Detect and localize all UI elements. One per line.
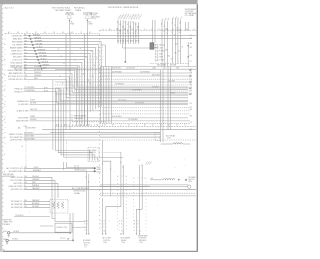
resistor R1 [52, 202, 54, 209]
vertical drop x102.7 [102, 140, 104, 196]
svg-text:B4: B4 [64, 125, 66, 127]
lower elbow fan [56, 89, 90, 161]
svg-text:30: 30 [24, 61, 26, 63]
svg-text:V1: V1 [158, 29, 160, 31]
rows y134 right [100, 133, 160, 135]
svg-text:X2: X2 [172, 29, 174, 31]
splice dot S201 [94, 167, 96, 169]
svg-text:(1/4): (1/4) [84, 245, 88, 247]
svg-text:BLK/WHT: BLK/WHT [32, 203, 40, 205]
svg-text:DK BLU: DK BLU [34, 69, 41, 71]
svg-text:RELAY: RELAY [121, 239, 127, 242]
fuse wire F2 verticals [84, 34, 86, 127]
right dashed row y63.5 [150, 63, 190, 65]
splice feeder elbow [67, 162, 95, 168]
wire right far pair [185, 22, 187, 31]
svg-text:GRY/RED: GRY/RED [38, 52, 46, 54]
bottom vertical x102.7 lower [102, 198, 104, 234]
wire center continue a [122, 39, 124, 48]
svg-text:CIG LTR FEED: CIG LTR FEED [10, 180, 24, 182]
svg-text:SEAT BELT: SEAT BELT [13, 37, 24, 40]
svg-text:C: C [137, 227, 138, 229]
svg-text:41: 41 [166, 33, 168, 35]
svg-text:F3: F3 [96, 125, 98, 127]
wire right single pair [152, 20, 154, 43]
svg-text:33: 33 [125, 33, 127, 35]
svg-text:CLASS 2 SER: CLASS 2 SER [16, 110, 29, 113]
svg-text:J2: J2 [120, 125, 122, 127]
svg-text:D2: D2 [80, 125, 82, 127]
left rows block B wires [24, 67, 78, 69]
svg-text:AUX PWR: AUX PWR [14, 182, 23, 185]
svg-text:15: 15 [102, 164, 104, 166]
svg-text:121: 121 [24, 69, 27, 71]
svg-text:41: 41 [182, 47, 184, 49]
svg-text:15: 15 [88, 182, 90, 184]
svg-text:CHARGE IND: CHARGE IND [11, 52, 24, 55]
svg-text:33: 33 [117, 22, 119, 24]
bottom connector box [55, 223, 72, 232]
svg-text:12: 12 [172, 32, 174, 34]
svg-text:N7: N7 [116, 29, 118, 31]
svg-text:(1/2): (1/2) [140, 242, 144, 244]
svg-text:15: 15 [122, 167, 124, 169]
pin ticks above cluster pin row [55, 124, 57, 126]
svg-text:42: 42 [161, 24, 163, 26]
wire row y69 [55, 68, 196, 70]
svg-text:67: 67 [24, 203, 26, 205]
svg-text:12: 12 [132, 33, 134, 35]
svg-text:39 GRY/RED: 39 GRY/RED [132, 89, 142, 91]
svg-text:C2: C2 [122, 231, 124, 233]
junction dot x70 ground row [69, 232, 71, 234]
resistor R3 [61, 202, 63, 209]
svg-text:T3: T3 [144, 29, 146, 31]
svg-text:716: 716 [24, 58, 27, 60]
svg-text:SIGNAL: SIGNAL [74, 192, 80, 195]
svg-text:420: 420 [24, 37, 27, 39]
bottom wire end arrows [86, 234, 88, 236]
svg-text:A/C CONTROL HD: A/C CONTROL HD [6, 167, 23, 170]
junction dot x73 ground row [72, 240, 74, 242]
dotted vertical x66.5 [66, 140, 68, 160]
svg-text:39: 39 [24, 34, 26, 36]
svg-text:S6: S6 [176, 125, 178, 127]
stub wires dark box to ladder [154, 44, 158, 46]
svg-text:F3: F3 [53, 32, 55, 34]
svg-text:8 GRY: 8 GRY [159, 57, 163, 59]
svg-text:DIMMER SIG: DIMMER SIG [17, 101, 29, 103]
svg-text:15: 15 [110, 169, 112, 171]
svg-text:M3: M3 [144, 125, 146, 127]
arrowheads right row ends [190, 69, 192, 71]
svg-text:824: 824 [24, 46, 27, 48]
svg-text:FUSE 10A: FUSE 10A [65, 13, 74, 16]
svg-text:C7: C7 [72, 125, 74, 127]
svg-text:MOTOR: MOTOR [84, 242, 91, 244]
svg-text:C: C [134, 227, 135, 229]
wire row y66.5 [101, 66, 197, 68]
thermal fuse symbol [185, 179, 187, 181]
svg-text:PRNDL A: PRNDL A [14, 87, 23, 90]
svg-text:716 PNK/BLK: 716 PNK/BLK [128, 119, 139, 121]
svg-text:LT BLU: LT BLU [37, 46, 43, 48]
bottom long verticals group 1 [86, 171, 88, 233]
svg-text:67: 67 [24, 49, 26, 51]
blower resistor dashed box [50, 200, 68, 214]
bottom border line [3, 250, 198, 252]
svg-text:B2: B2 [190, 47, 192, 49]
row dotted continuations block B [78, 67, 104, 69]
svg-text:C1: C1 [85, 247, 87, 249]
right verticals x160-170 [160, 70, 162, 142]
svg-text:82: 82 [119, 24, 121, 26]
svg-text:42: 42 [119, 33, 121, 35]
left band vertical [52, 80, 54, 150]
svg-text:E4: E4 [190, 55, 192, 57]
svg-text:DRL MODULE / CHIME MODULE: DRL MODULE / CHIME MODULE [108, 7, 139, 9]
svg-text:ORN/BLK: ORN/BLK [42, 64, 50, 66]
svg-text:M3: M3 [109, 29, 111, 31]
svg-text:BLOWER: BLOWER [189, 177, 197, 179]
svg-text:C7: C7 [26, 32, 28, 34]
rows y101-123 right extension [56, 100, 189, 102]
svg-text:824 YEL/BLK: 824 YEL/BLK [112, 116, 122, 118]
svg-text:B: B [134, 224, 135, 226]
svg-text:237 ORN: 237 ORN [168, 80, 175, 82]
svg-text:WHT: WHT [32, 182, 36, 184]
svg-text:L1: L1 [136, 125, 138, 127]
svg-text:(1/4): (1/4) [104, 242, 108, 244]
svg-text:150B: 150B [159, 54, 163, 56]
center elbow x105 [101, 45, 106, 67]
bottom elbow to box [52, 198, 55, 219]
svg-text:67: 67 [130, 33, 132, 35]
svg-text:82: 82 [127, 33, 129, 35]
svg-text:CHECK GAUGES: CHECK GAUGES [7, 69, 23, 72]
svg-text:FUEL GAUGE: FUEL GAUGE [10, 61, 23, 64]
svg-text:15: 15 [85, 177, 87, 179]
svg-text:R2: R2 [130, 29, 132, 31]
svg-text:E2: E2 [190, 103, 192, 105]
svg-text:C2: C2 [139, 231, 141, 233]
fuse F1 [68, 16, 71, 19]
svg-text:OIL PRESS: OIL PRESS [13, 44, 24, 46]
svg-text:5 BLK: 5 BLK [159, 48, 163, 50]
svg-text:C: C [87, 227, 88, 229]
svg-text:15: 15 [172, 23, 174, 25]
wire center elbow right y48 [123, 47, 156, 49]
svg-text:39: 39 [78, 92, 80, 94]
wire row y189.3 [24, 188, 197, 190]
svg-text:G6: G6 [62, 32, 64, 34]
center verticals x100-112 [100, 67, 102, 124]
wire from fuse F1 [69, 19, 71, 34]
svg-text:39 PNK: 39 PNK [159, 51, 164, 53]
right dashed box y132 [155, 133, 160, 141]
scan noise specks [66, 42, 69, 45]
wire row y195.9 [100, 195, 196, 197]
svg-text:SEE FUSE: SEE FUSE [4, 220, 12, 222]
svg-text:PRNDL B: PRNDL B [14, 91, 23, 93]
svg-text:824: 824 [168, 56, 171, 58]
svg-text:UPSHIFT IND: UPSHIFT IND [11, 67, 23, 69]
svg-text:33: 33 [24, 43, 26, 45]
svg-text:30: 30 [24, 78, 26, 80]
svg-text:PPL/WHT: PPL/WHT [34, 66, 42, 68]
wires center cluster [117, 20, 119, 44]
svg-text:CLUTCH: CLUTCH [103, 240, 111, 242]
block B verticals to elbows [78, 68, 189, 88]
svg-text:B: B [137, 224, 138, 226]
left scan band [0, 4, 2, 252]
diode symbols right [187, 42, 189, 67]
svg-text:BRN/WHT: BRN/WHT [33, 170, 41, 172]
svg-text:36: 36 [3, 250, 5, 252]
svg-text:30: 30 [179, 32, 181, 34]
lower center dashed box [88, 148, 99, 162]
svg-text:67: 67 [171, 59, 173, 61]
svg-text:41: 41 [174, 34, 176, 36]
svg-text:(1/4): (1/4) [122, 242, 126, 244]
svg-text:15: 15 [139, 160, 141, 162]
page background [0, 0, 200, 259]
svg-text:33: 33 [24, 179, 26, 181]
right module dashed top edge [100, 29, 196, 31]
svg-text:716 PNK/BLK: 716 PNK/BLK [140, 71, 151, 73]
component dashed outline around pair 1 [117, 176, 119, 231]
svg-text:J2: J2 [80, 32, 82, 34]
instrument cluster dashed top edge [5, 33, 100, 35]
svg-text:SECURITY: SECURITY [13, 56, 23, 58]
svg-text:41: 41 [24, 170, 26, 172]
resistor R2 [57, 202, 59, 209]
svg-text:N7: N7 [152, 125, 154, 127]
svg-text:H8: H8 [112, 125, 114, 127]
svg-text:MOTOR: MOTOR [189, 179, 196, 181]
elbow x102.7 to x110.8 [103, 161, 111, 196]
svg-text:F7: F7 [190, 61, 192, 63]
svg-text:DEFOG FEED: DEFOG FEED [10, 140, 23, 142]
right cluster A wires continue [161, 42, 163, 67]
wires right cluster A [161, 20, 163, 42]
svg-text:HVAC BLOWER: HVAC BLOWER [9, 185, 23, 188]
svg-text:C4: C4 [190, 122, 192, 124]
center pair verticals y165 [74, 165, 76, 170]
svg-text:YEL/BLK: YEL/BLK [32, 176, 40, 178]
top scan band [0, 0, 198, 4]
svg-text:96: 96 [22, 146, 24, 148]
left rows block A connector dots [29, 35, 31, 37]
svg-text:B9: B9 [190, 116, 192, 118]
svg-text:B: B [121, 224, 122, 226]
svg-text:F4: F4 [190, 107, 192, 109]
svg-text:67: 67 [24, 185, 26, 187]
left rows block A wires [24, 35, 197, 37]
svg-text:YEL/BLK: YEL/BLK [41, 61, 49, 63]
svg-text:G202: G202 [3, 231, 7, 233]
svg-text:B4: B4 [17, 32, 19, 34]
svg-text:BRAKE WARN: BRAKE WARN [10, 46, 23, 49]
bottom elbow left x136.5 [137, 209, 143, 233]
svg-text:824 DK BLU: 824 DK BLU [112, 68, 122, 70]
svg-text:K5: K5 [89, 32, 91, 34]
fuse wire F1 verticals [69, 34, 71, 131]
bottom elbow drops [51, 177, 53, 198]
svg-text:23: 23 [135, 24, 137, 26]
svg-text:30: 30 [132, 22, 134, 24]
svg-text:41: 41 [135, 33, 137, 35]
svg-text:E9: E9 [88, 125, 90, 127]
svg-text:C7: C7 [193, 29, 195, 31]
svg-text:B: B [101, 224, 102, 226]
svg-text:71: 71 [137, 33, 139, 35]
svg-text:BRN/WHT: BRN/WHT [38, 49, 46, 51]
svg-text:SWITCH: SWITCH [89, 152, 96, 154]
svg-text:C1: C1 [190, 35, 192, 37]
svg-text:PNK/BLK: PNK/BLK [32, 185, 40, 187]
svg-text:ILLUM GND: ILLUM GND [18, 104, 29, 106]
wire rows y73-94 [101, 72, 193, 74]
svg-text:41: 41 [127, 24, 129, 26]
wire row y186.6 [100, 186, 188, 188]
wire row y184.9 [100, 184, 188, 186]
svg-text:15: 15 [120, 162, 122, 164]
svg-text:COIL: COIL [167, 138, 171, 140]
svg-text:39: 39 [117, 33, 119, 35]
right border line [196, 4, 198, 251]
svg-text:SVC ENG SOON: SVC ENG SOON [8, 76, 23, 78]
svg-text:D7: D7 [190, 129, 192, 131]
svg-text:121: 121 [175, 44, 178, 46]
svg-text:BLOWER M2: BLOWER M2 [11, 207, 22, 209]
svg-text:GND RETURN: GND RETURN [16, 121, 29, 123]
svg-text:121 DK BLU: 121 DK BLU [126, 68, 136, 70]
svg-text:41: 41 [24, 55, 26, 57]
connector arrow F2 wire [86, 20, 88, 22]
svg-text:TIMES: TIMES [75, 10, 82, 12]
svg-text:C2 = GRAY: C2 = GRAY [185, 14, 195, 17]
dashed row y193.2 [100, 192, 196, 194]
wires right cluster B [172, 18, 174, 42]
svg-text:B: B [104, 224, 105, 226]
svg-text:OF I/P): OF I/P) [91, 18, 97, 20]
dashed hook y152.3 [104, 151, 121, 153]
coil bottom right [163, 179, 175, 180]
svg-text:716: 716 [24, 75, 27, 77]
wire from G201 [8, 239, 73, 241]
svg-text:PNK/BLK: PNK/BLK [33, 34, 41, 36]
svg-text:BLK/WHT: BLK/WHT [35, 40, 43, 42]
svg-text:T3: T3 [184, 125, 186, 127]
center dashed box edges [72, 121, 106, 123]
svg-text:DK BLU: DK BLU [40, 58, 47, 60]
motor circle M [188, 185, 191, 188]
svg-text:PPL/WHT: PPL/WHT [39, 55, 47, 57]
svg-text:YEL/BLK: YEL/BLK [34, 72, 42, 74]
wire row y129 [42, 128, 196, 130]
wire row y132 [50, 131, 160, 133]
svg-text:L1: L1 [102, 29, 104, 31]
component dashed outline around pair 2 [133, 178, 135, 231]
svg-text:C: C [121, 227, 122, 229]
svg-text:ORN/BLK: ORN/BLK [32, 179, 40, 181]
svg-text:W5: W5 [165, 29, 167, 31]
svg-text:SEE GROUND: SEE GROUND [3, 174, 15, 176]
svg-text:39: 39 [130, 27, 132, 29]
svg-text:30: 30 [178, 51, 180, 53]
wires below resistor bank [69, 213, 71, 233]
svg-text:S6: S6 [137, 29, 139, 31]
svg-text:PARK LP FEED: PARK LP FEED [9, 133, 23, 136]
svg-text:12: 12 [125, 22, 127, 24]
svg-text:C: C [119, 227, 120, 229]
svg-text:S203: S203 [97, 171, 101, 173]
row dotted continuations block A [98, 44, 103, 46]
svg-text:67: 67 [179, 23, 181, 25]
svg-text:824 LT BLU: 824 LT BLU [152, 74, 161, 76]
svg-text:G203: G203 [3, 239, 7, 241]
wire drop from y129 [25, 130, 27, 169]
svg-text:33: 33 [163, 45, 165, 47]
wire from fuse F2 [86, 19, 88, 34]
svg-text:ORN/BLK: ORN/BLK [34, 75, 42, 77]
left y88 elbows [60, 89, 188, 101]
svg-text:21B: 21B [159, 45, 162, 47]
svg-text:IGN 3 FEED: IGN 3 FEED [18, 118, 29, 120]
svg-text:39: 39 [95, 92, 97, 94]
pin ticks top edges [69, 32, 71, 35]
svg-text:41: 41 [24, 72, 26, 74]
svg-text:TURN SIG LT: TURN SIG LT [11, 50, 23, 52]
svg-text:150: 150 [24, 176, 27, 178]
connector arrow F1 wire [69, 20, 71, 22]
svg-text:E9: E9 [44, 32, 46, 34]
svg-text:ABS WARN IND: ABS WARN IND [9, 72, 23, 75]
box stub wire [72, 226, 87, 228]
bottom long verticals group 2 [120, 152, 122, 206]
wire row y157.7 [99, 157, 123, 159]
svg-text:CRUISE SW SIG: CRUISE SW SIG [8, 79, 23, 81]
svg-text:41 PNK/BLK: 41 PNK/BLK [115, 83, 125, 85]
svg-text:HTD SEAT SW: HTD SEAT SW [10, 136, 23, 139]
instrument cluster dashed left edge [4, 34, 6, 149]
svg-text:824: 824 [24, 200, 27, 202]
right ladder component [155, 45, 158, 61]
splice dot center [124, 61, 126, 63]
page border left dotted [2, 4, 4, 251]
relay coil right [173, 143, 183, 144]
svg-text:121 WHT: 121 WHT [152, 86, 159, 88]
svg-text:LOW COOL: LOW COOL [12, 59, 22, 61]
svg-text:121: 121 [24, 206, 27, 208]
svg-text:30: 30 [122, 27, 124, 29]
ground G200 [7, 232, 10, 235]
svg-text:39: 39 [60, 56, 62, 58]
svg-text:RES: RES [189, 181, 192, 183]
svg-text:B 772: B 772 [44, 90, 48, 92]
svg-text:C: C [84, 227, 85, 229]
svg-text:P4: P4 [123, 29, 125, 31]
svg-text:B4: B4 [186, 29, 188, 31]
svg-text:30 YEL: 30 YEL [170, 92, 175, 94]
svg-text:R2: R2 [168, 125, 170, 127]
svg-text:15: 15 [141, 165, 143, 167]
right cluster B wires continue [172, 42, 174, 64]
svg-text:B: B [84, 224, 85, 226]
svg-text:GROUND 250: GROUND 250 [10, 189, 22, 191]
svg-text:G6: G6 [104, 125, 106, 127]
